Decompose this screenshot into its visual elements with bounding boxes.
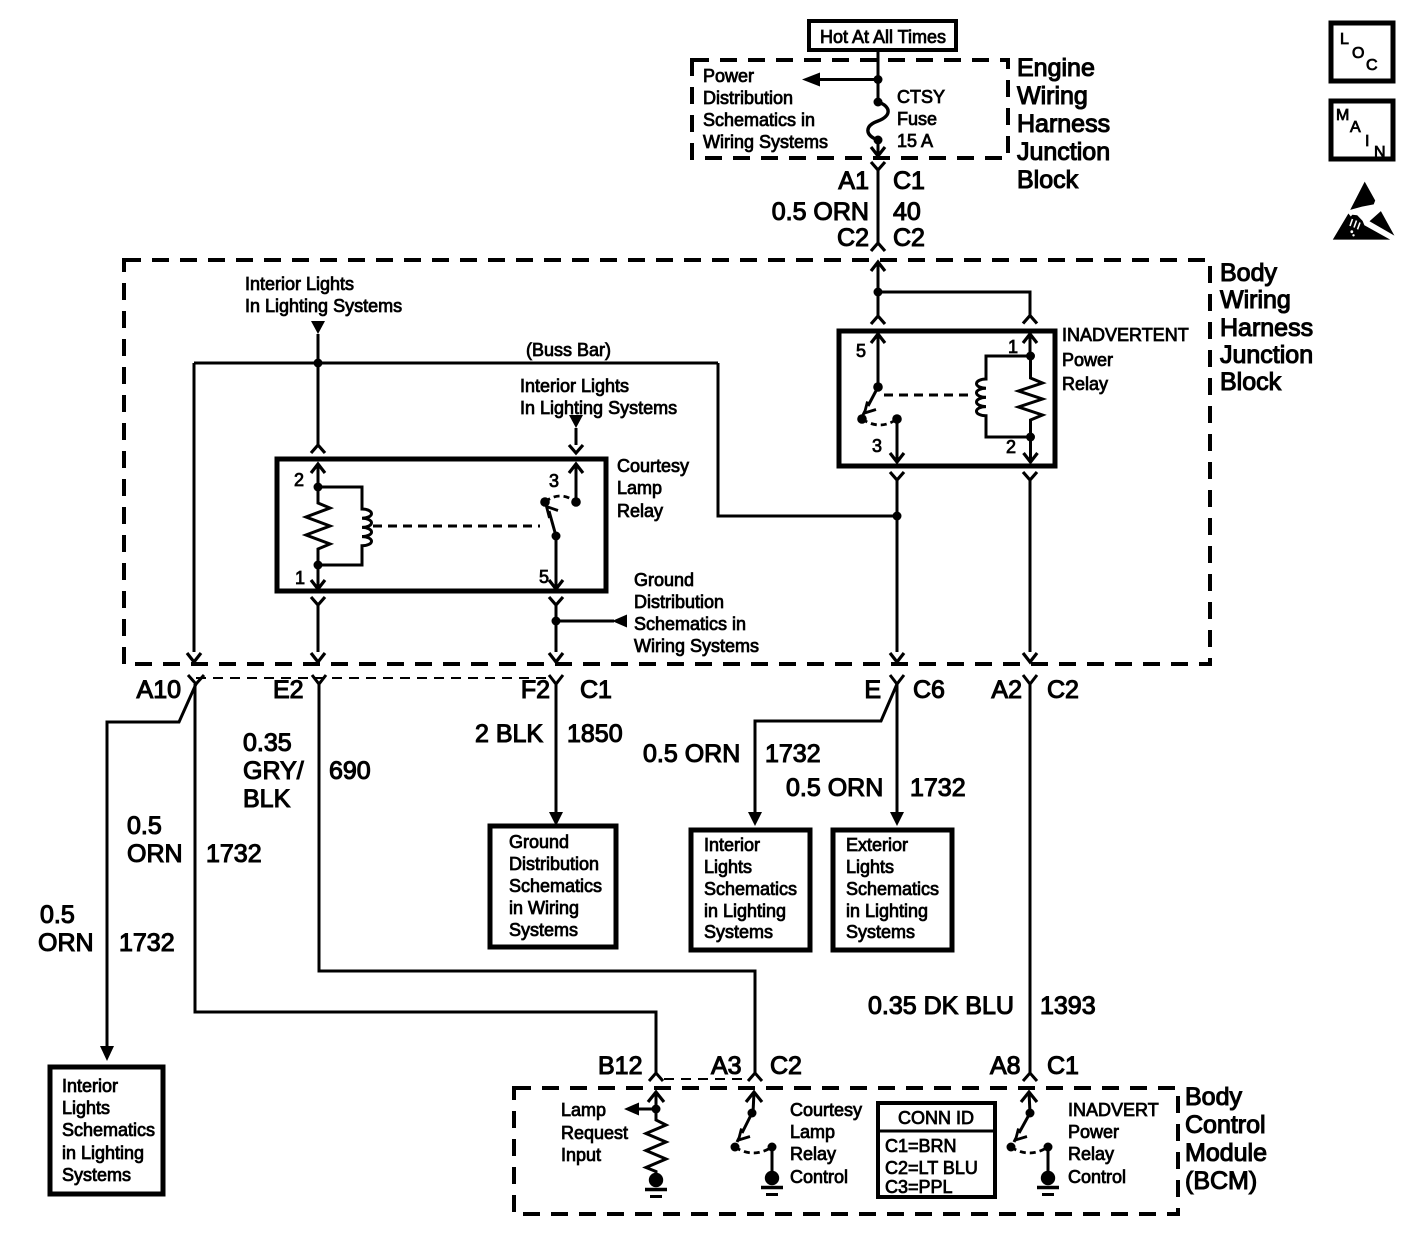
svg-text:Module: Module xyxy=(1185,1139,1267,1167)
node: A3 ground contact xyxy=(768,1143,777,1152)
CONN ID table xyxy=(878,1103,995,1197)
svg-text:Lights: Lights xyxy=(62,1098,110,1118)
pin A3 entry arrow xyxy=(746,1092,762,1102)
svg-text:1732: 1732 xyxy=(206,840,262,868)
svg-text:C: C xyxy=(1366,57,1378,74)
switch travel arc (dashed) xyxy=(545,496,576,502)
svg-text:C6: C6 xyxy=(913,676,945,704)
note text: ground distribution schematics box xyxy=(509,832,602,940)
svg-text:15 A: 15 A xyxy=(897,131,933,151)
svg-text:Relay: Relay xyxy=(790,1144,836,1164)
svg-text:Lamp: Lamp xyxy=(617,478,662,498)
svg-text:Systems: Systems xyxy=(509,920,578,940)
node: pin 3 contact xyxy=(892,414,902,424)
svg-text:Distribution: Distribution xyxy=(509,854,599,874)
svg-text:E: E xyxy=(864,676,881,704)
svg-text:C2: C2 xyxy=(1047,676,1079,704)
wire: buss bar right leg down to inadvertent relay output xyxy=(718,363,893,516)
svg-text:C2=LT BLU: C2=LT BLU xyxy=(885,1158,978,1178)
svg-text:CTSY: CTSY xyxy=(897,87,945,107)
wire label: 0.5 ORN 1732 (C6 lead) xyxy=(786,774,966,802)
svg-text:Block: Block xyxy=(1017,166,1079,194)
node: blade end pin 3 side xyxy=(857,414,867,424)
svg-text:Lights: Lights xyxy=(704,857,752,877)
label: INADVERTENT Power Relay xyxy=(1062,325,1189,394)
wire: pin 5 down through box bottom xyxy=(555,536,558,588)
body control module BCM (dashed box) xyxy=(514,1088,1178,1214)
svg-text:Courtesy: Courtesy xyxy=(617,456,689,476)
svg-text:Schematics: Schematics xyxy=(509,876,602,896)
node: feed split junction xyxy=(874,288,883,297)
note: inadvert power relay control xyxy=(1068,1100,1159,1187)
ground distribution schematics box xyxy=(490,826,616,947)
title: Engine Wiring Harness Junction Block xyxy=(1017,54,1110,194)
wire: branch to power distribution (left arrow) xyxy=(818,78,878,81)
switch blade with arrow (courtesy) xyxy=(549,511,556,536)
svg-text:Distribution: Distribution xyxy=(634,592,724,612)
svg-text:In Lighting Systems: In Lighting Systems xyxy=(520,398,677,418)
wire label: 2 BLK 1850 xyxy=(475,720,623,748)
title: Body Wiring Harness Junction Block xyxy=(1220,259,1313,396)
svg-text:0.5: 0.5 xyxy=(40,901,75,929)
switch common node pin 3 xyxy=(571,497,581,507)
icon: MAIN box xyxy=(1331,101,1393,161)
wire: buss bar to courtesy relay pin 2 xyxy=(317,363,320,445)
pin 2 entry arrow xyxy=(311,464,325,473)
note: interior lights in lighting systems (buss bar) xyxy=(245,274,402,316)
note text: interior lights schematics box (mid) xyxy=(704,835,797,942)
wire: courtesy pin5 lead below box xyxy=(549,597,563,605)
note: ground distribution schematics in wiring systems xyxy=(634,570,759,656)
svg-text:Control: Control xyxy=(1068,1167,1126,1187)
inadvertent power relay box xyxy=(839,331,1055,466)
svg-text:C2: C2 xyxy=(837,224,869,252)
svg-text:1732: 1732 xyxy=(910,774,966,802)
switch pivot node (courtesy) xyxy=(540,497,550,507)
wire: engine block to body block (connector A1/C1 to C2/C2) xyxy=(871,162,885,170)
wire: A2 lead to BCM A8 (0.35 DK BLU 1393) xyxy=(1029,684,1032,1073)
svg-text:(BCM): (BCM) xyxy=(1185,1167,1257,1195)
svg-text:BLK: BLK xyxy=(243,785,291,813)
svg-text:Hot At All Times: Hot At All Times xyxy=(820,27,946,47)
svg-text:Control: Control xyxy=(790,1167,848,1187)
node: A8 switch pivot xyxy=(1026,1109,1035,1118)
svg-text:Body: Body xyxy=(1220,259,1277,287)
svg-text:(Buss Bar): (Buss Bar) xyxy=(526,340,611,360)
svg-text:A3: A3 xyxy=(711,1052,742,1080)
svg-text:M: M xyxy=(1336,107,1349,124)
note: power distribution schematics in wiring systems xyxy=(703,66,828,152)
svg-text:in Lighting: in Lighting xyxy=(704,901,786,921)
node: courtesy coil pin 1 xyxy=(314,561,323,570)
interior lights schematics box (bottom left) xyxy=(50,1067,163,1194)
wire: lamp request input (left arrow) xyxy=(638,1108,656,1111)
switch pivot node (inadvertent) xyxy=(873,382,883,392)
svg-text:Exterior: Exterior xyxy=(846,835,908,855)
svg-text:Harness: Harness xyxy=(1017,110,1110,138)
svg-text:Wiring: Wiring xyxy=(1017,82,1088,110)
wire: contact to ground (A8) xyxy=(1047,1147,1050,1171)
wire: pin 3 down through box bottom xyxy=(896,419,899,461)
svg-text:INADVERTENT: INADVERTENT xyxy=(1062,325,1189,345)
icon: ESD sensitive device triangle xyxy=(1333,182,1395,240)
svg-text:A2: A2 xyxy=(991,676,1022,704)
svg-text:C1: C1 xyxy=(580,676,612,704)
svg-text:3: 3 xyxy=(549,471,559,491)
label box "Hot At All Times" xyxy=(809,21,956,50)
wire: pin 2 exit arrow xyxy=(1029,437,1032,461)
wire: E2 lead to BCM A3 (0.35 GRY/BLK 690) xyxy=(319,684,755,1073)
svg-text:ORN: ORN xyxy=(38,929,94,957)
node: A8 ground contact xyxy=(1044,1143,1053,1152)
wire: A10 straight lead to BCM B12 xyxy=(195,684,656,1073)
node: courtesy coil pin 2 xyxy=(314,483,323,492)
interior lights schematics box (mid) xyxy=(691,830,810,950)
wire label: 0.5 ORN 1732 (B12 lead) xyxy=(127,812,262,868)
wire: inadvertent pin 2 lead below box xyxy=(1023,472,1037,480)
svg-text:Lamp: Lamp xyxy=(561,1100,606,1120)
wire: contact to ground xyxy=(771,1147,774,1171)
ground G (B12 pull-down) xyxy=(649,1173,663,1187)
svg-text:in Wiring: in Wiring xyxy=(509,898,579,918)
svg-text:1: 1 xyxy=(1008,337,1018,357)
svg-text:1732: 1732 xyxy=(119,929,175,957)
svg-text:B12: B12 xyxy=(598,1052,642,1080)
svg-text:Interior Lights: Interior Lights xyxy=(245,274,354,294)
wire label: 0.5 ORN 1732 (E branch) xyxy=(643,740,821,768)
svg-text:Power: Power xyxy=(703,66,754,86)
coil (inadvertent relay) xyxy=(976,356,1030,437)
wire: C6 lead to exterior lights schematics (0.5 ORN 1732) xyxy=(896,684,899,812)
svg-text:1732: 1732 xyxy=(765,740,821,768)
node: A3 switch pivot xyxy=(748,1109,757,1118)
svg-text:E2: E2 xyxy=(273,676,304,704)
svg-text:O: O xyxy=(1352,45,1364,62)
wire label: 0.5 ORN / circuit 40 xyxy=(772,198,921,226)
svg-text:Request: Request xyxy=(561,1123,628,1143)
svg-text:Lamp: Lamp xyxy=(790,1122,835,1142)
svg-text:A1: A1 xyxy=(838,167,869,195)
svg-text:5: 5 xyxy=(539,567,549,587)
node: interior lights feed triangle 2 xyxy=(569,415,583,428)
wire: tap to ground distribution callout xyxy=(556,620,614,623)
node: blade end pin 5 xyxy=(552,532,561,541)
resistor (courtesy relay) xyxy=(306,487,330,565)
svg-text:Control: Control xyxy=(1185,1111,1266,1139)
wire: courtesy pin1 lead below box xyxy=(311,597,325,605)
node: buss bar junction xyxy=(314,359,323,368)
CONN ID table text xyxy=(885,1108,978,1197)
connector labels A10 E2 F2 C1 xyxy=(137,676,1079,704)
label: Courtesy Lamp Relay xyxy=(617,456,689,521)
svg-text:In Lighting Systems: In Lighting Systems xyxy=(245,296,402,316)
svg-text:2: 2 xyxy=(294,470,304,490)
node: relay pin 1 xyxy=(1026,352,1035,361)
svg-text:C3=PPL: C3=PPL xyxy=(885,1177,953,1197)
node: relay pin 2 xyxy=(1026,433,1035,442)
mechanical link (dashed) courtesy relay xyxy=(373,525,540,528)
svg-text:ORN: ORN xyxy=(127,840,183,868)
resistor (inadvertent relay) xyxy=(1019,356,1043,437)
node: branch junction above fuse xyxy=(874,75,883,84)
svg-text:Systems: Systems xyxy=(704,922,773,942)
svg-text:0.35: 0.35 xyxy=(243,729,292,757)
wire label: 0.35 GRY/BLK 690 xyxy=(243,729,371,813)
switch travel arc (dashed, A8) xyxy=(1011,1147,1048,1153)
node: buss bar tie-in on pin 3 lead xyxy=(893,512,902,521)
svg-text:Schematics in: Schematics in xyxy=(634,614,746,634)
node: interior lights feed triangle xyxy=(311,321,325,334)
wire: junction down to relay pin 5 xyxy=(877,292,880,316)
pin 5 entry arrow xyxy=(871,334,885,343)
wire label: 0.35 DK BLU 1393 xyxy=(868,992,1096,1020)
courtesy lamp relay box xyxy=(277,459,606,591)
ground G (A8) xyxy=(1041,1171,1055,1185)
svg-text:C1=BRN: C1=BRN xyxy=(885,1136,957,1156)
wire label: 0.5 ORN 1732 (interior lights lead) xyxy=(38,901,175,957)
svg-text:L: L xyxy=(1340,31,1349,48)
svg-text:A10: A10 xyxy=(137,676,181,704)
node: A3 blade end xyxy=(731,1143,740,1152)
svg-text:Engine: Engine xyxy=(1017,54,1095,82)
svg-text:INADVERT: INADVERT xyxy=(1068,1100,1159,1120)
connector fork E2 xyxy=(312,675,326,684)
wire: fuse output to engine block edge (arrow down) xyxy=(877,140,880,155)
svg-text:Schematics in: Schematics in xyxy=(703,110,815,130)
wire: inadvertent pin 3 lead below box xyxy=(890,472,904,480)
fuse CTSY 15 A xyxy=(874,98,883,107)
svg-text:I: I xyxy=(1365,133,1369,150)
wire: junction to relay pin 1 branch xyxy=(878,292,1030,317)
svg-text:C1: C1 xyxy=(1047,1052,1079,1080)
wire: hot feed from label box down to branch node xyxy=(877,50,880,102)
svg-text:C1: C1 xyxy=(893,167,925,195)
wire: buss bar horizontal xyxy=(194,362,718,365)
ground G (A3) xyxy=(765,1171,779,1185)
svg-text:Interior Lights: Interior Lights xyxy=(520,376,629,396)
svg-text:Schematics: Schematics xyxy=(846,879,939,899)
svg-text:Courtesy: Courtesy xyxy=(790,1100,862,1120)
note text: interior lights schematics box (bottom left) xyxy=(62,1076,155,1185)
svg-text:Schematics: Schematics xyxy=(62,1120,155,1140)
switch blade with arrow (A8 inadvert power relay control) xyxy=(1019,1113,1030,1133)
note: lamp request input xyxy=(561,1100,628,1165)
svg-text:Relay: Relay xyxy=(1062,374,1108,394)
switch travel arc (dashed, inadvertent) xyxy=(862,419,897,425)
svg-text:Junction: Junction xyxy=(1017,138,1110,166)
svg-text:Ground: Ground xyxy=(509,832,569,852)
title: Body Control Module (BCM) xyxy=(1185,1083,1267,1195)
svg-text:690: 690 xyxy=(329,757,371,785)
wire: E branch to interior lights schematics (0.5 ORN 1732) xyxy=(755,684,897,812)
svg-text:Interior: Interior xyxy=(62,1076,118,1096)
connector line C2 (thin dashed) between B12 and A3 xyxy=(664,1078,747,1080)
connector labels B12 A3 C2 A8 C1 xyxy=(598,1052,1079,1080)
value label: CTSY Fuse 15 A xyxy=(897,87,945,151)
pin B12 entry arrow xyxy=(648,1092,664,1102)
svg-text:Power: Power xyxy=(1062,350,1113,370)
pin 1 entry arrow xyxy=(1023,334,1037,343)
coil (courtesy relay) xyxy=(318,487,372,565)
svg-text:Junction: Junction xyxy=(1220,341,1313,369)
svg-text:Systems: Systems xyxy=(846,922,915,942)
svg-text:Relay: Relay xyxy=(1068,1144,1114,1164)
resistor (BCM pull) xyxy=(646,1109,666,1173)
connector fork E xyxy=(890,675,904,684)
connector fork F2 xyxy=(549,675,563,684)
svg-text:Systems: Systems xyxy=(62,1165,131,1185)
svg-text:Wiring Systems: Wiring Systems xyxy=(703,132,828,152)
svg-text:Input: Input xyxy=(561,1145,601,1165)
svg-text:1393: 1393 xyxy=(1040,992,1096,1020)
svg-text:Fuse: Fuse xyxy=(897,109,937,129)
svg-text:Relay: Relay xyxy=(617,501,663,521)
node: ground distribution tap xyxy=(552,617,561,626)
svg-text:GRY/: GRY/ xyxy=(243,757,304,785)
wire: interior lights feed down to buss bar xyxy=(317,334,320,363)
switch travel arc (dashed, A3) xyxy=(735,1147,772,1153)
svg-text:Block: Block xyxy=(1220,368,1282,396)
note: interior lights in lighting systems (pin 3) xyxy=(520,376,677,418)
svg-text:0.5 ORN: 0.5 ORN xyxy=(786,774,883,802)
svg-text:A: A xyxy=(1350,119,1361,136)
node: lamp request junction xyxy=(652,1105,661,1114)
wire: pin 3 up through box top xyxy=(575,464,578,502)
body wiring harness junction block (dashed box) xyxy=(124,260,1210,664)
svg-text:C2: C2 xyxy=(893,224,925,252)
svg-text:1: 1 xyxy=(295,568,305,588)
mechanical link (dashed) inadvertent relay xyxy=(884,394,972,397)
pin labels A1 / C1 xyxy=(838,167,925,195)
svg-text:2 BLK: 2 BLK xyxy=(475,720,543,748)
switch blade with arrow (A3 courtesy lamp relay control) xyxy=(742,1113,752,1133)
svg-text:C2: C2 xyxy=(770,1052,802,1080)
node: A8 blade end xyxy=(1007,1143,1016,1152)
svg-text:Wiring: Wiring xyxy=(1220,286,1291,314)
pin A8 entry arrow xyxy=(1021,1092,1037,1102)
exterior lights schematics box xyxy=(833,830,952,950)
icon: LOC box xyxy=(1331,23,1393,81)
pin labels C2 / C2 xyxy=(837,224,925,252)
svg-text:0.5: 0.5 xyxy=(127,812,162,840)
wire: F2 ground lead (2 BLK 1850) xyxy=(555,684,558,812)
pin number labels courtesy relay xyxy=(294,470,559,588)
svg-text:1850: 1850 xyxy=(567,720,623,748)
switch blade with arrow (inadvertent) xyxy=(868,387,878,406)
svg-text:2: 2 xyxy=(1006,437,1016,457)
svg-text:CONN ID: CONN ID xyxy=(898,1108,974,1128)
svg-text:3: 3 xyxy=(872,436,882,456)
svg-text:5: 5 xyxy=(856,341,866,361)
wire: A10 branch to interior lights schematics (0.5 ORN 1732) xyxy=(107,684,196,1046)
note: courtesy lamp relay control xyxy=(790,1100,862,1187)
svg-text:Wiring Systems: Wiring Systems xyxy=(634,636,759,656)
svg-text:Distribution: Distribution xyxy=(703,88,793,108)
wire: pin 1 exit arrow xyxy=(317,565,320,588)
svg-text:in Lighting: in Lighting xyxy=(62,1143,144,1163)
svg-text:Lights: Lights xyxy=(846,857,894,877)
svg-text:A8: A8 xyxy=(990,1052,1021,1080)
pin number labels inadvertent relay xyxy=(856,337,1018,457)
svg-text:0.5 ORN: 0.5 ORN xyxy=(772,198,869,226)
svg-text:Ground: Ground xyxy=(634,570,694,590)
svg-text:0.35 DK BLU: 0.35 DK BLU xyxy=(868,992,1014,1020)
connector line C1 (thin dashed) below body block xyxy=(196,677,553,679)
connector fork A10 xyxy=(188,675,204,684)
svg-text:Power: Power xyxy=(1068,1122,1119,1142)
svg-text:40: 40 xyxy=(893,198,921,226)
svg-text:Harness: Harness xyxy=(1220,314,1313,342)
svg-text:N: N xyxy=(1374,144,1386,161)
svg-text:F2: F2 xyxy=(521,676,550,704)
connector fork A2 xyxy=(1023,675,1037,684)
svg-text:Body: Body xyxy=(1185,1083,1242,1111)
note text: exterior lights schematics box xyxy=(846,835,939,942)
svg-text:in Lighting: in Lighting xyxy=(846,901,928,921)
svg-text:Schematics: Schematics xyxy=(704,879,797,899)
engine wiring harness junction block (dashed box) xyxy=(692,60,1008,158)
wire: buss bar left leg down to A10 xyxy=(193,363,196,652)
svg-text:Interior: Interior xyxy=(704,835,760,855)
svg-text:0.5 ORN: 0.5 ORN xyxy=(643,740,740,768)
wire: main feed into body block xyxy=(871,262,885,271)
